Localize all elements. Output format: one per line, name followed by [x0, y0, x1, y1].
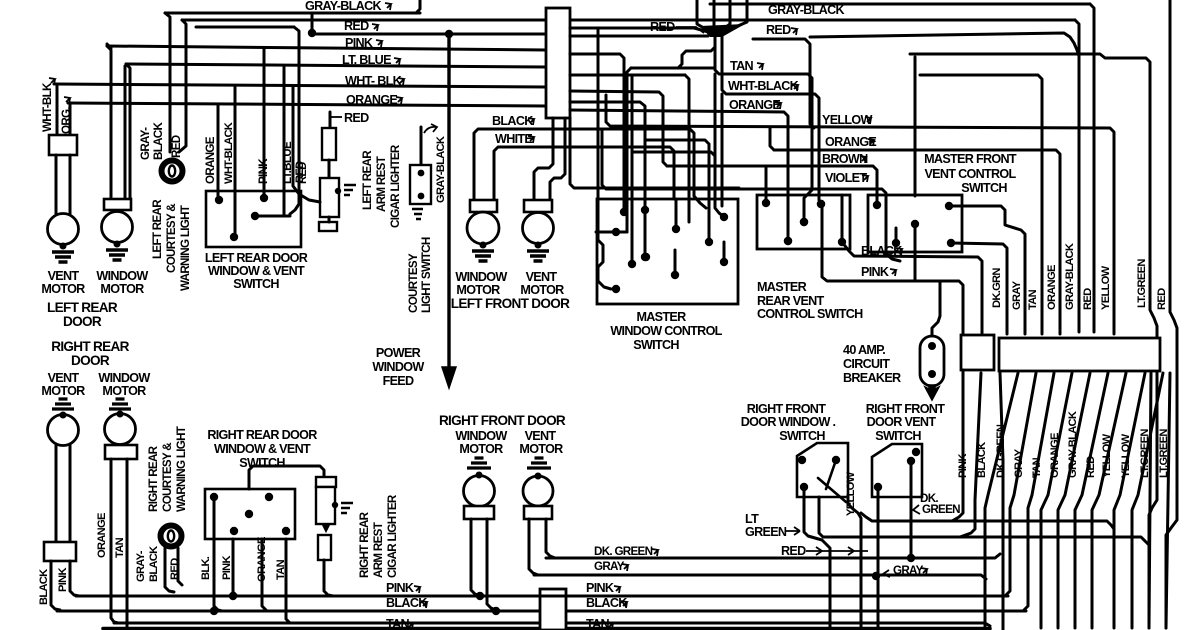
wire BLACK left front	[474, 129, 706, 208]
wire LT.GREEN below connector	[1114, 373, 1145, 628]
svg-text:TAN: TAN	[114, 537, 126, 558]
svg-text:WARNING LIGHT: WARNING LIGHT	[175, 426, 188, 512]
wire drop to lamp 2	[179, 20, 186, 152]
svg-text:VENT CONTROL: VENT CONTROL	[924, 167, 1016, 181]
wire to vent motor	[55, 155, 58, 215]
svg-text:COURTESY: COURTESY	[407, 253, 420, 313]
connector right front vent motor	[524, 506, 552, 519]
connector small right	[961, 335, 994, 370]
wire TAN below connector	[1006, 373, 1036, 595]
svg-text:ORANGE: ORANGE	[204, 136, 217, 184]
ground	[527, 251, 549, 261]
wire rect to box dot 646	[570, 102, 645, 257]
svg-text:LEFT FRONT DOOR: LEFT FRONT DOOR	[451, 296, 570, 311]
svg-text:SWITCH: SWITCH	[633, 338, 679, 352]
svg-text:MOTOR: MOTOR	[519, 442, 563, 456]
wire RED right continuation	[810, 33, 1079, 56]
svg-text:SWITCH: SWITCH	[239, 456, 285, 470]
wire step y51	[678, 47, 715, 68]
svg-text:GRAY-BLACK: GRAY-BLACK	[305, 0, 381, 13]
wire breaker top	[932, 281, 940, 336]
wire BLACK down	[51, 561, 60, 610]
wire GRAY-BLACK long bus	[182, 19, 1075, 22]
connector left front window motor	[470, 200, 497, 212]
node TAN terminal	[800, 218, 808, 226]
wire switch lever	[826, 460, 836, 489]
svg-text:WHITE: WHITE	[495, 132, 532, 146]
wire stub in box	[674, 250, 677, 274]
svg-text:PINK: PINK	[386, 581, 414, 595]
svg-text:GREEN: GREEN	[745, 525, 787, 539]
wire RED bus middle	[311, 13, 314, 35]
connector block top	[546, 8, 570, 118]
breaker 40 amp capsule	[920, 336, 944, 386]
svg-text:SWITCH: SWITCH	[233, 277, 279, 291]
wire TAN down sw	[286, 539, 290, 623]
motor right rear window	[105, 414, 136, 445]
motor right front window	[464, 476, 495, 507]
wire YELLOW from window switch	[848, 497, 861, 630]
svg-text:BLACK: BLACK	[586, 596, 627, 610]
svg-text:YELLOW: YELLOW	[822, 113, 873, 127]
svg-text:WHT-BLK: WHT-BLK	[41, 82, 54, 132]
wire WHT-BLK to vent motor	[56, 86, 59, 135]
svg-text:ARM REST: ARM REST	[375, 156, 388, 212]
svg-text:BLACK: BLACK	[492, 114, 533, 128]
svg-text:VENT: VENT	[526, 270, 558, 284]
wire DK.GRN drop	[951, 243, 1007, 334]
wire power window feed	[447, 34, 450, 368]
svg-text:RED: RED	[170, 135, 183, 158]
svg-text:MOTOR: MOTOR	[41, 384, 85, 398]
svg-text:ORANGE: ORANGE	[96, 513, 108, 558]
wire LT.GREEN2 below connector	[1132, 373, 1163, 628]
motor left front vent	[523, 213, 554, 244]
wire rect to BROWN chain	[570, 91, 667, 166]
wire rect to box dot 624	[570, 54, 624, 212]
wire PINK bus bottom	[76, 595, 1008, 598]
connector right rear vent motor	[44, 542, 76, 561]
wire step y140	[645, 140, 709, 238]
wire extra right 1	[1149, 373, 1151, 628]
switch master front vent control	[868, 195, 962, 252]
svg-text:SWITCH: SWITCH	[875, 429, 921, 443]
switch master window control	[597, 199, 738, 304]
svg-text:MASTER: MASTER	[757, 280, 807, 294]
svg-text:WINDOW & VENT: WINDOW & VENT	[208, 264, 305, 278]
wire jog PINK to LT.GREEN	[861, 513, 1114, 529]
svg-text:VENT: VENT	[525, 429, 557, 443]
svg-text:ORANGE: ORANGE	[346, 93, 397, 107]
svg-text:RED: RED	[766, 23, 791, 37]
wire YELLOW2 below connector	[1092, 373, 1126, 628]
ground right rear vent motor	[52, 399, 74, 409]
svg-text:MOTOR: MOTOR	[100, 282, 144, 296]
wire to vent motor 2	[69, 155, 72, 215]
svg-text:LT: LT	[745, 512, 759, 526]
wire RED to funnel upper	[570, 28, 712, 33]
svg-text:MASTER: MASTER	[636, 310, 686, 324]
wire lamp down 2	[178, 548, 182, 585]
wire stub in box	[895, 228, 898, 243]
svg-text:RIGHT FRONT: RIGHT FRONT	[747, 402, 826, 416]
svg-text:DK. GREEN: DK. GREEN	[594, 545, 653, 558]
svg-text:LEFT REAR: LEFT REAR	[361, 150, 374, 210]
svg-text:MOTOR: MOTOR	[41, 282, 85, 296]
wire switch top to lighter	[249, 466, 324, 489]
node master switch terminal	[720, 213, 728, 221]
wire branch to switch	[196, 26, 294, 29]
arrow power window feed	[442, 367, 456, 388]
wire rf window motor down 2	[487, 519, 496, 610]
wire RED below connector	[1058, 373, 1090, 628]
svg-text:PINK: PINK	[345, 36, 373, 50]
wire drop x598	[597, 28, 600, 91]
svg-text:WINDOW: WINDOW	[455, 429, 507, 443]
svg-text:GRAY: GRAY	[893, 564, 924, 577]
svg-text:BLACK: BLACK	[386, 596, 427, 610]
svg-text:PINK: PINK	[221, 556, 233, 580]
wire RED top bus	[710, 3, 1090, 6]
svg-text:PINK: PINK	[957, 454, 969, 478]
svg-text:LEFT REAR: LEFT REAR	[151, 199, 164, 259]
wire VIOLET bus	[610, 189, 900, 261]
svg-text:BLACK: BLACK	[152, 122, 165, 160]
wire PINK bus	[107, 44, 111, 48]
wire ORG to vent motor	[69, 105, 72, 135]
svg-text:PINK: PINK	[257, 158, 270, 184]
wire LT.GREEN right drop	[910, 54, 1157, 628]
svg-text:RIGHT REAR: RIGHT REAR	[51, 339, 129, 354]
svg-text:LEFT REAR DOOR: LEFT REAR DOOR	[205, 251, 308, 265]
svg-text:WINDOW: WINDOW	[455, 270, 507, 284]
svg-text:ORANGE: ORANGE	[256, 537, 268, 582]
wire lever diagonal	[818, 478, 846, 502]
motor left rear window	[102, 212, 133, 243]
node motor terminal	[114, 241, 121, 248]
node WHT-BLACK terminal	[817, 200, 825, 208]
wire DK GREEN from vent switch down	[910, 461, 913, 558]
connector left rear vent motor	[49, 135, 77, 155]
wire PINK down	[70, 561, 79, 596]
connector long right	[999, 338, 1160, 371]
connector left rear window motor	[104, 199, 131, 210]
motor right rear vent	[48, 415, 79, 446]
wire master front vent stub up	[914, 57, 917, 196]
svg-text:GRAY-BLACK: GRAY-BLACK	[1064, 243, 1076, 310]
svg-text:WINDOW: WINDOW	[372, 360, 424, 374]
svg-text:BROWN: BROWN	[822, 152, 868, 166]
wire drop x627	[627, 68, 631, 232]
wire YELLOW long bus	[606, 95, 1114, 334]
svg-text:YELLOW: YELLOW	[845, 471, 857, 516]
node terminal	[535, 242, 542, 249]
wire from switch dot down	[914, 224, 917, 281]
svg-text:BLACK: BLACK	[148, 546, 160, 582]
svg-text:GRAY-BLACK: GRAY-BLACK	[768, 3, 844, 17]
wire drop x632	[631, 75, 634, 264]
ground right front vent motor	[527, 458, 551, 468]
svg-text:DK.GRN: DK.GRN	[991, 268, 1003, 308]
wire DK.GRN from front vent switch	[949, 206, 1025, 334]
svg-text:WINDOW: WINDOW	[98, 371, 150, 385]
wire RED right bus	[753, 39, 814, 128]
wire ORANGE3 bus	[570, 110, 788, 237]
wire LT.BLUE drop to window motor	[126, 64, 130, 199]
svg-text:GRAY-BLACK: GRAY-BLACK	[1067, 411, 1079, 478]
wire WHITE left front	[494, 147, 674, 200]
lamp right rear courtesy	[161, 526, 182, 547]
svg-text:LEFT REAR: LEFT REAR	[47, 300, 118, 315]
wire PINK to switch	[263, 49, 266, 196]
wire BROWN bus	[667, 166, 877, 201]
svg-text:LT. BLUE: LT. BLUE	[342, 53, 391, 67]
svg-text:RIGHT REAR DOOR: RIGHT REAR DOOR	[207, 428, 317, 442]
ground	[52, 252, 74, 262]
svg-text:WHT-BLACK: WHT-BLACK	[223, 122, 235, 184]
svg-text:POWER: POWER	[376, 346, 421, 360]
svg-text:YELLOW: YELLOW	[1100, 265, 1112, 310]
svg-text:VENT: VENT	[48, 371, 80, 385]
svg-text:VENT: VENT	[48, 269, 80, 283]
motor left front window	[467, 212, 499, 244]
svg-text:RED: RED	[1156, 288, 1168, 310]
switch courtesy light	[420, 127, 423, 166]
wire RED far right	[1166, 0, 1177, 628]
wire step y152	[632, 152, 715, 156]
wire LT GREEN from window switch	[804, 487, 830, 630]
svg-text:BREAKER: BREAKER	[843, 371, 901, 385]
wire ORANGE bus	[68, 103, 546, 106]
wire to window motor	[124, 66, 127, 199]
svg-text:RIGHT FRONT: RIGHT FRONT	[866, 402, 945, 416]
connector bottom middle	[540, 589, 566, 630]
svg-text:MOTOR: MOTOR	[520, 283, 564, 297]
motor left rear vent	[48, 214, 79, 245]
switch right rear door window and vent	[205, 489, 295, 539]
svg-text:RED: RED	[650, 20, 675, 34]
wire step y68	[631, 67, 715, 70]
wire funnel branch into master switch	[715, 74, 723, 216]
svg-text:PINK: PINK	[861, 265, 889, 279]
wire LT.BLUE bus	[126, 64, 546, 67]
wire BLACK below connector	[960, 373, 981, 537]
svg-text:TAN: TAN	[1027, 289, 1039, 310]
svg-text:GRAY-: GRAY-	[139, 127, 152, 160]
node top feed vertical	[416, 0, 420, 13]
svg-text:RED: RED	[1082, 288, 1094, 310]
svg-text:RED: RED	[781, 544, 806, 558]
wire funnel drop to TAN bus	[715, 34, 812, 218]
svg-text:LT.GREEN: LT.GREEN	[1136, 259, 1148, 308]
svg-text:REAR VENT: REAR VENT	[757, 294, 825, 308]
svg-text:PINK: PINK	[57, 568, 69, 592]
wire TAN bus bottom	[114, 622, 540, 625]
svg-text:COURTESY &: COURTESY &	[161, 442, 174, 512]
svg-text:ORANGE: ORANGE	[729, 98, 780, 112]
wire stub in box	[675, 199, 678, 229]
wire RED to lighter	[293, 87, 320, 202]
wire BLACK right	[842, 242, 982, 333]
svg-text:PINK: PINK	[586, 581, 614, 595]
svg-text:DOOR VENT: DOOR VENT	[867, 415, 937, 429]
svg-text:GRAY: GRAY	[1011, 280, 1023, 310]
svg-text:RED: RED	[344, 111, 369, 125]
wire box left stub	[596, 231, 627, 234]
wire lighter down	[324, 560, 333, 596]
wire rect bottom along box top	[570, 118, 739, 188]
wire bridge y75	[570, 74, 685, 77]
svg-text:CIGAR LIGHTER: CIGAR LIGHTER	[389, 144, 402, 228]
svg-text:WHT-BLACK: WHT-BLACK	[728, 79, 799, 93]
wire PINK right	[822, 204, 963, 333]
wire drop x689	[685, 75, 689, 222]
svg-text:GRAY: GRAY	[594, 560, 625, 573]
wire BLACK bus bottom	[57, 610, 540, 613]
svg-text:WHT- BLK: WHT- BLK	[345, 74, 402, 88]
switch right front door window	[797, 443, 848, 497]
wire TAN down	[126, 459, 129, 628]
svg-text:RED: RED	[169, 558, 181, 580]
svg-text:ORANGE: ORANGE	[825, 135, 876, 149]
svg-text:BLACK: BLACK	[976, 442, 988, 478]
svg-text:ORANGE: ORANGE	[1046, 265, 1058, 310]
wire GRAY-BLACK bus left	[165, 12, 420, 15]
wire drop RED to switch	[290, 27, 299, 214]
wire stub	[765, 168, 768, 203]
wire extra right 2	[1166, 373, 1170, 628]
svg-text:RIGHT REAR: RIGHT REAR	[358, 511, 371, 578]
wire TAN bus bottom 2	[566, 623, 990, 626]
svg-text:ORG.: ORG.	[60, 107, 73, 134]
wire TAN right drop	[920, 75, 1042, 334]
wire zigzag to box dot	[598, 91, 611, 289]
wire GRAY-BLACK below connector	[1041, 373, 1072, 628]
connector right front window motor	[464, 506, 494, 519]
wire GRAY below connector	[985, 373, 1018, 630]
node terminal	[480, 242, 487, 249]
wire ORANGE2 bus	[770, 128, 774, 150]
svg-text:CIGAR LIGHTER: CIGAR LIGHTER	[386, 494, 399, 578]
ground	[472, 251, 494, 261]
label LT GREEN pointer	[785, 527, 800, 535]
svg-text:RED: RED	[344, 19, 369, 33]
wire inside switch	[255, 215, 290, 218]
connector right rear window motor	[105, 445, 137, 459]
svg-text:SWITCH: SWITCH	[961, 181, 1007, 195]
wire funnel drop to WHT-BLACK bus	[722, 36, 819, 200]
svg-text:LIGHT SWITCH: LIGHT SWITCH	[420, 237, 433, 313]
cigar lighter left rear	[329, 112, 332, 130]
svg-text:VIOLET: VIOLET	[825, 171, 867, 185]
wire RED right drop	[1090, 4, 1094, 332]
svg-text:TAN: TAN	[730, 59, 753, 73]
svg-text:RIGHT REAR: RIGHT REAR	[147, 445, 160, 512]
wire BLK down	[214, 497, 222, 611]
wire rf vent motor to GRAY	[529, 519, 538, 575]
wire DK.GREEN bus bottom	[546, 554, 1000, 558]
wire lamp down 1	[165, 548, 174, 592]
label RED cigar	[330, 116, 342, 118]
wire violet long left	[602, 130, 610, 189]
wire PINK below connector	[952, 370, 963, 521]
wire BLACK bus bottom 2	[566, 610, 1026, 613]
wire ORANGE below connector	[1024, 373, 1054, 610]
svg-text:RIGHT FRONT DOOR: RIGHT FRONT DOOR	[439, 413, 566, 428]
wire PINK over connector	[536, 595, 570, 598]
svg-text:ARM REST: ARM REST	[372, 522, 385, 578]
node funnel junction	[700, 24, 745, 37]
connector left front vent motor	[524, 200, 552, 212]
wire RED right front	[877, 487, 880, 630]
wire WHT-BLACK to switch	[234, 86, 237, 235]
wire jog BLACK to LT.GREEN2	[819, 497, 1149, 545]
svg-text:TAN: TAN	[275, 559, 287, 580]
svg-text:MOTOR: MOTOR	[456, 283, 500, 297]
svg-text:WARNING LIGHT: WARNING LIGHT	[179, 205, 192, 291]
svg-text:MOTOR: MOTOR	[102, 384, 146, 398]
ground	[106, 250, 128, 260]
svg-text:CONTROL SWITCH: CONTROL SWITCH	[757, 307, 863, 321]
wire PINK drop to window motor	[107, 46, 111, 199]
switch master rear vent control	[757, 195, 850, 249]
svg-text:GRAY-: GRAY-	[135, 550, 147, 582]
wire GRAY bus bottom	[534, 575, 986, 579]
wire stub	[841, 195, 844, 242]
svg-text:DOOR WINDOW .: DOOR WINDOW .	[741, 415, 836, 429]
cigar lighter right rear	[316, 477, 336, 487]
svg-text:GRAY-BLACK: GRAY-BLACK	[435, 136, 447, 203]
svg-text:WINDOW & VENT: WINDOW & VENT	[214, 442, 311, 456]
wire vent motor left front up	[534, 118, 553, 200]
lamp left rear courtesy	[162, 161, 183, 182]
wire funnel merge	[697, 0, 714, 34]
svg-text:DOOR: DOOR	[71, 353, 110, 368]
ground right rear window motor	[109, 399, 131, 409]
svg-text:RED: RED	[297, 162, 309, 184]
svg-text:BLACK: BLACK	[38, 569, 50, 605]
svg-text:WINDOW CONTROL: WINDOW CONTROL	[610, 324, 722, 338]
svg-text:40 AMP.: 40 AMP.	[843, 343, 885, 357]
svg-text:GREEN: GREEN	[922, 503, 960, 516]
wire PINK down sw	[233, 539, 237, 596]
wire LT.BLUE to switch	[283, 66, 286, 216]
wire RED to funnel lower	[570, 35, 708, 38]
svg-text:BLK.: BLK.	[200, 556, 212, 580]
wire ORANGE down	[111, 459, 118, 623]
wire drop to courtesy lamp	[165, 13, 170, 152]
wire YELLOW below connector	[1075, 373, 1108, 628]
node motor terminal	[60, 243, 67, 250]
wire vent motor down	[55, 444, 58, 542]
arrow breaker bottom	[925, 385, 939, 400]
ground right front window motor	[467, 458, 491, 468]
wire rf vent motor to DK GREEN	[546, 519, 555, 558]
switch right front door vent	[872, 444, 922, 497]
wire ORANGE down sw	[262, 539, 266, 610]
wire bottom heavy bar	[103, 627, 990, 630]
wire ORANGE to switch	[217, 105, 220, 198]
wire branch x722 into master switch	[721, 94, 724, 206]
svg-text:COURTESY &: COURTESY &	[165, 203, 178, 273]
node power feed junction	[445, 30, 453, 38]
wire stub in box	[723, 242, 726, 262]
svg-text:DOOR: DOOR	[63, 314, 102, 329]
svg-text:MOTOR: MOTOR	[459, 442, 503, 456]
motor right front vent	[523, 476, 553, 506]
wire DK GREEN below connector	[1000, 373, 1003, 630]
wire GRAY-BLACK right drop	[1075, 20, 1079, 332]
